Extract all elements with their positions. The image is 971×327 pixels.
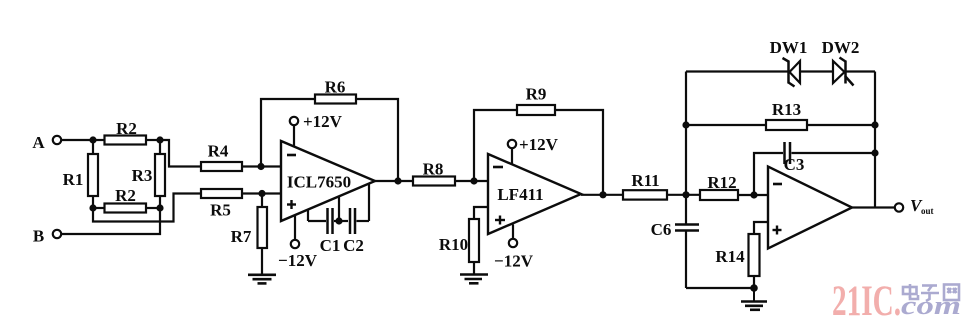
resistor R10: [439, 219, 479, 275]
node U3 inverting input / C3 tap: [750, 191, 757, 198]
svg-text:R13: R13: [772, 100, 801, 119]
svg-text:R7: R7: [231, 227, 252, 246]
op-amp U2 LF411: [488, 154, 581, 234]
svg-text:R4: R4: [208, 142, 229, 161]
svg-text:R12: R12: [707, 173, 736, 192]
node U1 non-inverting input: [258, 190, 265, 197]
svg-text:R3: R3: [132, 166, 153, 185]
-12V supply U2: [494, 225, 534, 271]
feedback resistor R13: [686, 100, 875, 130]
svg-text:−12V: −12V: [278, 251, 318, 270]
svg-text:DW2: DW2: [822, 38, 860, 57]
wire between DW1 and DW2: [800, 70, 833, 72]
node bridge top-left: [89, 136, 96, 143]
svg-text:C2: C2: [343, 236, 364, 255]
node C3 / right bus junction: [871, 149, 878, 156]
node bridge top-right: [156, 136, 163, 143]
svg-text:21IC.: 21IC.: [832, 278, 901, 325]
ground (under R7): [248, 275, 276, 284]
svg-text:out: out: [921, 206, 934, 216]
svg-text:C3: C3: [784, 155, 805, 174]
resistor R3: [132, 140, 165, 208]
svg-text:+12V: +12V: [519, 135, 559, 154]
svg-text:R14: R14: [715, 247, 745, 266]
capacitor C3: [754, 142, 875, 195]
svg-text:R5: R5: [210, 201, 231, 220]
node between C1 and C2: [335, 197, 342, 225]
resistor R2 (top): [93, 119, 160, 145]
wire R11 to R12: [667, 194, 700, 196]
wire bridge bottom-left to R5: [93, 194, 201, 222]
node U2 inverting input: [470, 177, 477, 184]
capacitor C2: [343, 184, 369, 256]
wire B to bridge: [61, 208, 160, 234]
svg-text:ICL7650: ICL7650: [287, 173, 351, 192]
left feedback bus wire: [685, 72, 687, 195]
svg-text:−12V: −12V: [494, 252, 534, 271]
zener diode DW2: [822, 38, 860, 86]
bottom wire C6 to R14: [686, 287, 754, 289]
ground (under R14): [741, 288, 767, 310]
-12V supply U1: [278, 215, 318, 270]
wire U3 output to terminal: [852, 206, 895, 208]
svg-text:R6: R6: [325, 78, 346, 97]
wire R4 to op-amp U1: [242, 165, 281, 167]
zener diode DW1: [770, 38, 808, 87]
node U1 inverting input: [257, 163, 264, 170]
node ground junction: [750, 284, 758, 292]
wire R5 to op-amp U1: [242, 192, 281, 194]
watermark chinese char dian: [903, 284, 918, 299]
resistor R1: [63, 140, 98, 208]
wire U3 non-inverting input to R14: [754, 222, 768, 234]
resistor R12: [700, 173, 738, 200]
capacitor C6: [651, 195, 699, 288]
resistor R2 (bottom): [93, 186, 160, 213]
wire bridge top-right to R4: [160, 140, 201, 167]
resistor R11: [623, 171, 667, 200]
+12V supply U2: [508, 135, 559, 165]
wire R8 to op-amp U2: [455, 180, 488, 182]
resistor R14: [715, 234, 759, 288]
wire A to bridge: [61, 139, 93, 141]
watermark chinese char zi: [921, 286, 939, 302]
svg-text:R2: R2: [116, 119, 137, 138]
wire R12 to op-amp U3: [738, 194, 768, 196]
wire U2 output to R11: [581, 194, 623, 196]
op-amp U3: [768, 167, 852, 249]
node U2 output / R9 junction: [599, 191, 606, 198]
node bridge bottom-right: [156, 204, 163, 211]
svg-text:R9: R9: [526, 85, 547, 104]
svg-text:R2: R2: [115, 186, 136, 205]
svg-text:C1: C1: [320, 236, 341, 255]
svg-text:A: A: [32, 133, 45, 152]
wire U2 non-inverting input to R10: [474, 207, 488, 219]
wire U1 output to R8: [374, 180, 413, 182]
svg-text:R11: R11: [631, 171, 659, 190]
resistor R4: [201, 142, 242, 172]
+12V supply U1: [290, 112, 343, 147]
svg-text:R8: R8: [423, 160, 444, 179]
input terminal A: [32, 133, 61, 152]
node R13 left junction: [682, 121, 689, 128]
wire DW2 to right bus: [846, 70, 876, 72]
node U1 output / R6 junction: [394, 177, 401, 184]
feedback resistor R9: [474, 85, 603, 196]
node R11/R12/C6 junction: [682, 191, 689, 198]
resistor R8: [413, 160, 455, 186]
label Vout: [910, 196, 934, 216]
watermark chinese char wang: [944, 285, 959, 301]
feedback resistor R6: [261, 78, 398, 182]
right feedback bus wire: [874, 72, 876, 208]
resistor R5: [201, 189, 242, 220]
svg-text:LF411: LF411: [497, 185, 543, 204]
resistor R7: [231, 194, 267, 275]
node bridge bottom-left: [89, 204, 96, 211]
svg-text:R10: R10: [439, 235, 468, 254]
input terminal B: [33, 227, 61, 246]
wire top row to DW1: [686, 70, 788, 72]
op-amp U1 ICL7650: [281, 141, 375, 221]
svg-text:B: B: [33, 227, 44, 246]
capacitor C1: [308, 208, 348, 255]
output terminal: [895, 203, 903, 211]
node R13 right junction: [871, 121, 878, 128]
svg-text:+12V: +12V: [303, 112, 343, 131]
ground (under R10): [460, 275, 488, 284]
svg-text:C6: C6: [651, 220, 672, 239]
svg-text:DW1: DW1: [770, 38, 808, 57]
svg-text:R1: R1: [63, 170, 84, 189]
